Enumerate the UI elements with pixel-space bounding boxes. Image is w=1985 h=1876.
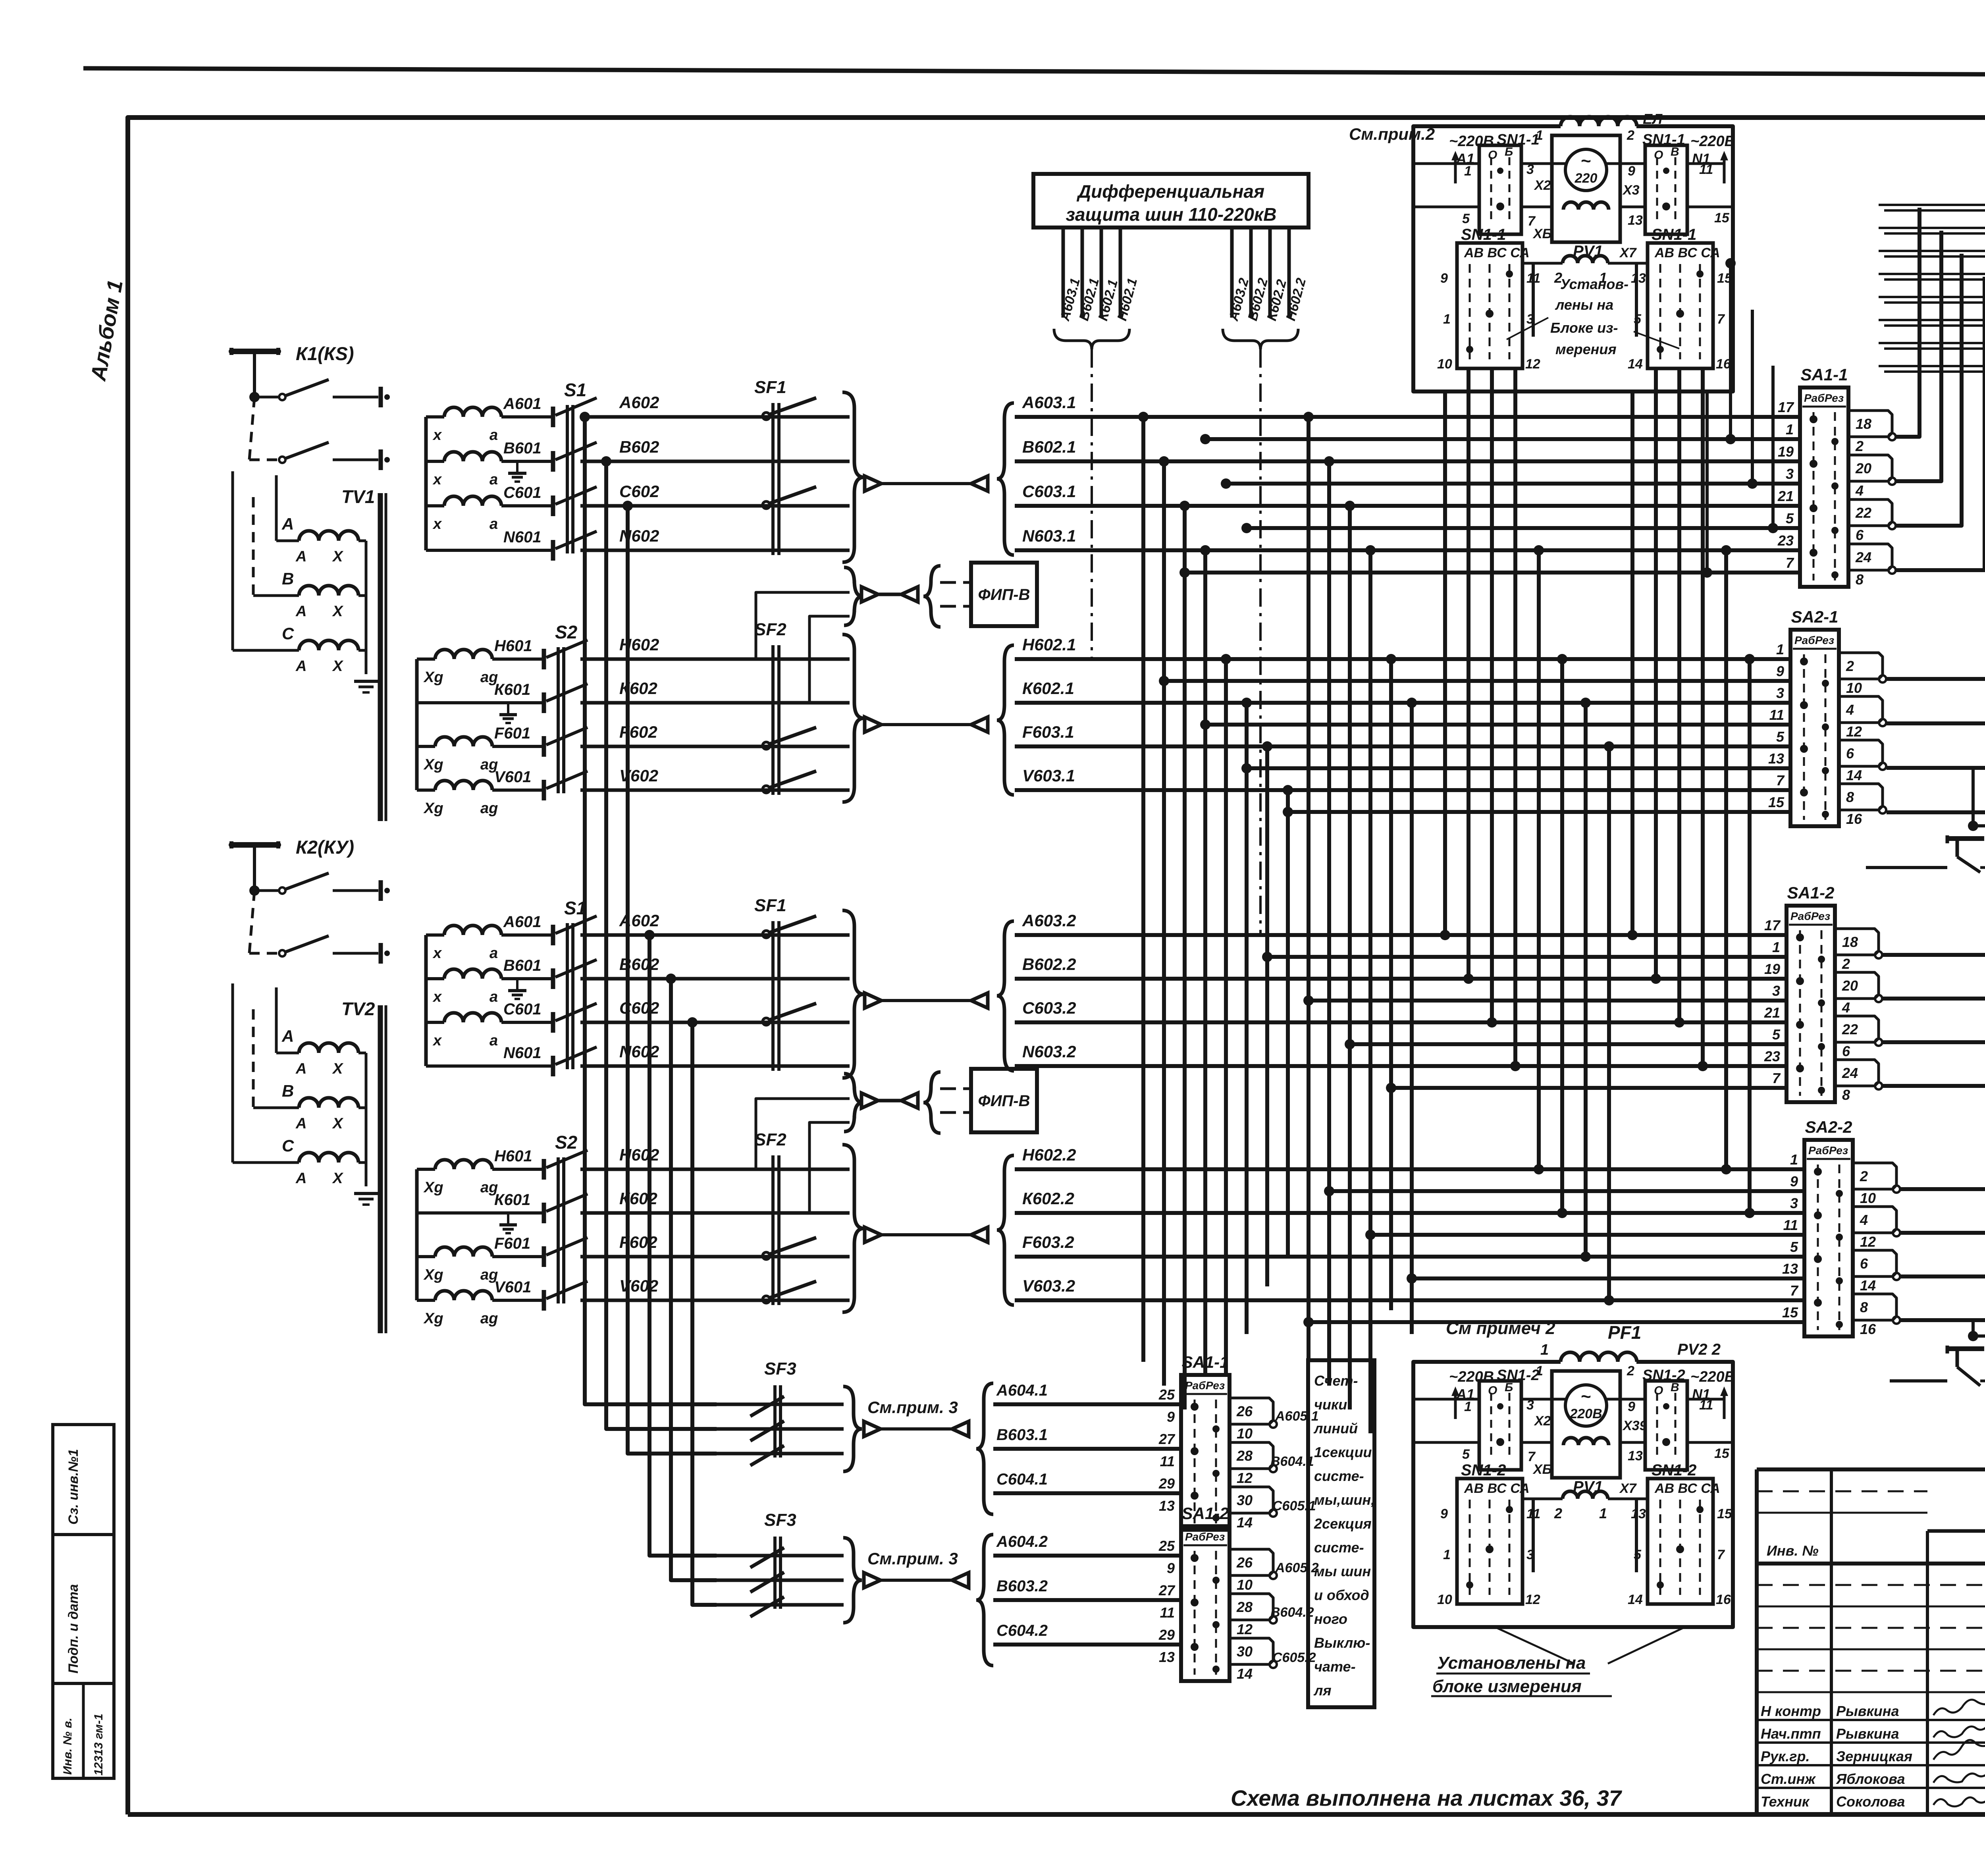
note text assembly 1 [1349,125,1679,357]
svg-text:N603.1: N603.1 [1022,526,1076,545]
svg-text:V602: V602 [619,766,658,785]
svg-text:ХБ: ХБ [1532,1462,1552,1477]
svg-text:14: 14 [1860,1277,1876,1294]
svg-text:V603.1: V603.1 [1022,766,1075,785]
svg-text:4: 4 [1855,482,1864,499]
svg-text:А: А [295,1115,306,1132]
svg-text:12: 12 [1237,1621,1253,1637]
svg-text:6: 6 [1860,1255,1868,1272]
svg-text:19: 19 [1778,443,1794,460]
svg-text:1: 1 [1540,1342,1549,1358]
mesh riser wires group B [1440,368,1755,1305]
svg-text:3: 3 [1526,1398,1534,1413]
svg-text:13: 13 [1628,1448,1643,1463]
measuring block assembly 2 outline and supply labels [1413,1322,1735,1627]
svg-text:N602: N602 [619,526,659,545]
svg-text:N603.2: N603.2 [1022,1042,1076,1061]
svg-text:Х: Х [332,548,344,565]
title block [1757,1469,1985,1814]
svg-text:Подп. и дата: Подп. и дата [66,1584,81,1674]
svg-text:а: а [490,989,498,1005]
bus group H602 system1 with breaker SF2 [580,620,1790,802]
svg-text:V603.2: V603.2 [1022,1276,1075,1295]
svg-text:23: 23 [1764,1048,1780,1064]
svg-text:1: 1 [1443,1547,1451,1562]
svg-text:2: 2 [1554,1505,1562,1521]
mesh riser wires group A [1138,412,1417,1433]
svg-text:F602: F602 [619,723,657,741]
svg-text:F602: F602 [619,1233,657,1251]
album label [86,278,127,384]
svg-text:8: 8 [1842,1087,1850,1103]
reactor PV1 (assembly 1) [1522,243,1648,286]
svg-text:2: 2 [1855,438,1864,454]
switch SN1-2 big left (assembly 2) [1437,1461,1540,1607]
SA2-2 left feeders [1303,1186,1804,1327]
svg-text:1: 1 [1786,421,1794,438]
left stamp box 1 (Св.инв.№) [53,1425,114,1535]
svg-text:Рез: Рез [1811,910,1830,922]
svg-text:22: 22 [1855,505,1871,521]
svg-text:Х: Х [332,603,344,620]
wire into SB1 lower [1890,1320,1973,1381]
svg-text:Раб.: Раб. [1794,634,1818,646]
svg-text:12: 12 [1525,357,1540,372]
svg-text:Раб.: Раб. [1808,1144,1832,1157]
svg-text:5: 5 [1790,1239,1798,1255]
winding block S2 (system 2) [417,1132,588,1327]
svg-text:S2: S2 [555,622,578,642]
svg-text:блоке измерения: блоке измерения [1432,1677,1582,1696]
svg-text:3: 3 [1776,685,1784,701]
svg-text:Соколова: Соколова [1836,1793,1905,1810]
svg-text:15: 15 [1714,1446,1730,1461]
svg-text:13: 13 [1631,1506,1646,1521]
svg-text:27: 27 [1158,1582,1176,1598]
svg-text:F601: F601 [494,725,530,742]
selector switch SA1-2 [1764,883,1882,1103]
svg-text:О: О [1488,148,1497,162]
svg-text:С601: С601 [503,1001,542,1018]
svg-text:16: 16 [1860,1321,1876,1337]
svg-text:Х: Х [332,658,344,675]
svg-text:5: 5 [1462,211,1470,226]
svg-text:13: 13 [1768,750,1784,767]
svg-text:30: 30 [1237,1643,1253,1660]
svg-text:С: С [282,1136,294,1155]
svg-text:х: х [432,1032,442,1049]
svg-text:1: 1 [1443,312,1451,327]
svg-text:SА1-2: SА1-2 [1181,1504,1229,1523]
svg-text:О: О [1654,1384,1663,1397]
counter output labels 2 [1270,1560,1319,1665]
svg-text:Х: Х [332,1115,344,1132]
svg-text:Х: Х [332,1060,344,1077]
svg-text:А: А [295,548,306,565]
transformer TV1 [233,471,386,821]
voltmeter PV2 (assembly 2) [1552,1371,1620,1478]
svg-text:АВ ВС СА: АВ ВС СА [1654,1481,1720,1496]
svg-text:ного: ного [1314,1611,1347,1627]
svg-text:Н602: Н602 [619,1145,659,1164]
svg-text:С602: С602 [619,999,659,1017]
svg-text:В: В [282,569,294,588]
svg-text:В602.1: В602.1 [1022,438,1076,456]
selector switch SA1-2 (counters) [1158,1504,1277,1682]
switch SN1-1 small right (assembly 1) [1645,145,1687,234]
svg-text:SF3: SF3 [764,1359,796,1379]
svg-text:7: 7 [1717,312,1725,327]
svg-text:С604.2: С604.2 [996,1622,1048,1639]
svg-text:А602: А602 [619,911,659,930]
selector switch SA1-1 (counters) [1158,1353,1277,1531]
svg-text:В601: В601 [503,440,542,457]
bus group H602 system2 with breaker SF2 [580,1130,1804,1312]
svg-text:Б: Б [1505,145,1513,158]
svg-text:13: 13 [1628,213,1643,228]
svg-text:В: В [1671,145,1679,158]
svg-text:К601: К601 [494,681,530,698]
push button SB1 (lower) [1947,1344,1985,1386]
svg-text:Рез: Рез [1815,634,1834,646]
svg-text:12: 12 [1860,1234,1876,1250]
svg-text:29: 29 [1158,1627,1175,1643]
svg-text:Н601: Н601 [494,1147,532,1165]
svg-text:Х39: Х39 [1622,1418,1647,1433]
svg-text:5: 5 [1776,729,1785,745]
svg-text:С602: С602 [619,482,659,501]
svg-text:В602: В602 [619,955,659,974]
svg-text:12: 12 [1525,1592,1540,1607]
SA2-1 left feeders [1159,676,1790,817]
counter output labels 1 [1270,1409,1319,1514]
svg-text:V602: V602 [619,1276,658,1295]
svg-text:мы,шин,: мы,шин, [1314,1492,1375,1508]
svg-text:ЕЛ: ЕЛ [1643,111,1663,127]
left stamp box 2 (Подп. и дата) [53,1535,114,1683]
switch SN1-2 small right (assembly 2) [1645,1381,1687,1470]
svg-text:Б: Б [1505,1381,1513,1394]
svg-text:К602: К602 [619,679,657,698]
svg-text:2: 2 [1860,1168,1868,1184]
wire C604.2 [993,1643,1181,1647]
svg-text:4: 4 [1846,702,1854,718]
switch SN1-1 big right (assembly 1) [1628,226,1733,372]
svg-text:Инв. №: Инв. № [1767,1542,1819,1559]
bus group A602 system1 with breaker SF1 [580,378,1800,562]
svg-text:F601: F601 [494,1235,530,1252]
svg-text:7: 7 [1790,1282,1799,1299]
svg-text:9: 9 [1790,1173,1798,1190]
svg-text:7: 7 [1776,772,1785,789]
svg-text:SF2: SF2 [754,1130,786,1149]
breaker group SF3 (system 1) [717,1359,1048,1514]
wire into SB1 upper [1866,768,1973,868]
svg-text:15: 15 [1782,1304,1798,1321]
svg-text:N601: N601 [503,528,542,546]
svg-text:9: 9 [1628,1399,1635,1414]
svg-text:5: 5 [1634,1547,1642,1562]
svg-text:5: 5 [1462,1447,1470,1462]
svg-text:N601: N601 [503,1044,542,1062]
svg-text:9: 9 [1628,164,1635,179]
feeder risers to SF3 [580,412,717,1605]
wires EV2 comb droppers [1883,760,1985,1320]
svg-text:2: 2 [1842,956,1850,972]
svg-text:3: 3 [1772,983,1780,999]
svg-text:Хg: Хg [423,1310,443,1327]
differential protection box [1033,174,1309,228]
svg-text:10: 10 [1846,680,1862,696]
svg-text:К1(КS): К1(КS) [296,343,354,364]
svg-text:10: 10 [1437,357,1452,372]
svg-text:А: А [281,515,294,533]
svg-text:10: 10 [1237,1425,1253,1442]
winding block S1 (system 1) [426,380,597,561]
svg-text:11: 11 [1526,271,1540,286]
svg-text:лены на: лены на [1555,297,1613,313]
svg-text:16: 16 [1846,811,1862,827]
svg-text:А604.2: А604.2 [996,1533,1048,1550]
svg-text:РV2 2: РV2 2 [1677,1341,1721,1358]
winding block S1 (system 2) [426,898,597,1076]
svg-text:А605.2: А605.2 [1275,1560,1319,1575]
pin numbers assembly 2 [1462,1398,1730,1496]
svg-text:5: 5 [1634,312,1642,327]
svg-text:Рез: Рез [1829,1144,1848,1157]
svg-text:Н601: Н601 [494,637,532,655]
svg-text:24: 24 [1855,549,1871,565]
svg-text:5: 5 [1786,510,1794,526]
svg-text:а: а [490,516,498,532]
svg-text:28: 28 [1236,1448,1253,1464]
svg-text:а: а [490,427,498,443]
svg-text:9: 9 [1167,1560,1175,1576]
svg-text:2: 2 [1627,128,1634,143]
svg-text:10: 10 [1237,1577,1253,1593]
svg-text:и обход: и обход [1314,1587,1369,1603]
svg-text:SА2-2: SА2-2 [1805,1118,1852,1136]
svg-text:АВ ВС СА: АВ ВС СА [1654,245,1720,260]
wire B603.2 [993,1598,1181,1602]
svg-text:А: А [295,1060,306,1077]
svg-text:Хg: Хg [423,800,443,817]
svg-text:К2(КУ): К2(КУ) [296,837,354,858]
svg-text:11: 11 [1699,162,1713,177]
svg-text:S1: S1 [564,380,586,400]
svg-text:3: 3 [1786,466,1794,482]
measuring block assembly 1 outline and supply labels [1413,111,1735,391]
bus group A602 system2 with breaker SF1 [580,896,1786,1078]
svg-text:ХБ: ХБ [1532,226,1552,241]
FIP-V box 2 [756,1069,1037,1213]
wire B603.1 [993,1447,1181,1451]
svg-text:Зерницкая: Зерницкая [1836,1748,1912,1764]
svg-text:Схема выполнена на листах 3: Схема выполнена на листах 36, 37 [1231,1785,1623,1810]
svg-text:20: 20 [1842,978,1858,994]
svg-text:А: А [295,603,306,620]
svg-text:ТV2: ТV2 [341,999,375,1019]
svg-text:а: а [490,1032,498,1049]
svg-text:Техник: Техник [1761,1793,1810,1810]
svg-text:К601: К601 [494,1191,530,1209]
svg-text:F603.2: F603.2 [1022,1233,1074,1251]
svg-text:12313 гм-1: 12313 гм-1 [92,1714,105,1776]
note text assembly 2 [1431,1319,1683,1696]
svg-text:С603.1: С603.1 [1022,482,1076,501]
svg-text:SА2-1: SА2-1 [1791,607,1838,626]
svg-text:12: 12 [1846,723,1862,740]
svg-text:С603.2: С603.2 [1022,999,1076,1017]
svg-text:7: 7 [1717,1547,1725,1562]
svg-text:Раб.: Раб. [1185,1379,1208,1392]
svg-text:систе-: систе- [1314,1468,1364,1484]
svg-text:АВ ВС СА: АВ ВС СА [1464,1481,1530,1496]
svg-text:13: 13 [1782,1261,1798,1277]
svg-text:1: 1 [1464,1399,1472,1414]
svg-text:17: 17 [1778,399,1794,415]
svg-text:Хg: Хg [423,1179,443,1196]
wires EV1 comb droppers [1887,208,1985,812]
svg-text:ТV1: ТV1 [341,486,375,507]
svg-text:Дифференциальная: Дифференциальная [1076,181,1264,202]
svg-text:SN1-2: SN1-2 [1652,1461,1696,1479]
svg-text:Рез: Рез [1825,392,1844,404]
svg-text:Блоке из-: Блоке из- [1550,320,1618,336]
svg-text:А: А [281,1027,294,1045]
svg-text:Х2: Х2 [1534,178,1551,193]
svg-text:В: В [282,1082,294,1100]
switch SN1-2 small left (assembly 2) [1479,1381,1521,1470]
svg-text:2: 2 [1846,658,1854,674]
pin numbers assembly 1 [1462,162,1730,260]
svg-text:а: а [490,471,498,488]
svg-text:18: 18 [1842,934,1858,950]
svg-text:С: С [282,624,294,643]
svg-text:См.прим. 3: См.прим. 3 [867,1549,958,1568]
svg-text:29: 29 [1158,1475,1175,1492]
svg-text:11: 11 [1699,1398,1713,1413]
svg-text:А: А [295,658,306,675]
svg-text:~220В: ~220В [1690,133,1735,150]
switch SN1-1 big left (assembly 1) [1437,226,1540,372]
wires inside assembly 1 [1413,164,1733,337]
svg-text:SF1: SF1 [754,896,786,915]
bottom note [1231,1785,1623,1810]
svg-text:6: 6 [1846,745,1854,762]
svg-text:В603.1: В603.1 [996,1426,1048,1444]
svg-text:21: 21 [1764,1005,1780,1021]
svg-text:~220В: ~220В [1690,1369,1735,1385]
svg-text:К602.1: К602.1 [1022,679,1074,698]
svg-text:4: 4 [1842,999,1850,1016]
svg-text:О: О [1654,148,1663,162]
svg-text:аg: аg [480,1310,498,1327]
svg-text:S2: S2 [555,1132,578,1153]
diff protection leads group 1 [1054,228,1140,659]
svg-text:7: 7 [1772,1070,1781,1086]
svg-text:АВ ВС СА: АВ ВС СА [1464,245,1530,260]
svg-text:К602: К602 [619,1189,657,1208]
svg-text:23: 23 [1777,532,1794,549]
svg-text:SN1-2: SN1-2 [1461,1461,1506,1479]
assembly pin riser wires [1179,258,1800,578]
svg-text:К602.2: К602.2 [1022,1189,1074,1208]
svg-text:3: 3 [1526,162,1534,177]
svg-text:11: 11 [1783,1217,1798,1233]
winding block S2 (system 1) [417,622,588,817]
svg-text:2секция: 2секция [1314,1515,1372,1532]
FIP-V box 1 [756,563,1037,703]
svg-text:х: х [432,471,442,488]
disconnector K1(KS) [231,343,390,470]
svg-text:N602: N602 [619,1042,659,1061]
svg-text:13: 13 [1159,1649,1175,1665]
svg-text:220В: 220В [1569,1406,1602,1421]
svg-text:Х3: Х3 [1622,183,1640,198]
svg-text:9: 9 [1776,663,1784,679]
svg-text:14: 14 [1237,1514,1253,1531]
svg-text:аg: аg [480,800,498,817]
svg-text:Выклю-: Выклю- [1314,1635,1370,1651]
svg-text:14: 14 [1628,357,1643,372]
svg-text:5: 5 [1772,1026,1781,1043]
svg-text:А: А [295,1170,306,1187]
wire A604.2 [993,1554,1181,1558]
svg-text:Н602: Н602 [619,635,659,654]
svg-text:Х7: Х7 [1619,245,1637,260]
selector switch SA2-2 [1782,1118,1900,1337]
svg-text:~220В: ~220В [1449,133,1494,150]
svg-text:V601: V601 [494,768,531,786]
svg-text:А603.2: А603.2 [1022,911,1076,930]
bus comb EV1 [1879,187,1985,377]
svg-text:27: 27 [1158,1431,1176,1447]
svg-text:9: 9 [1167,1409,1175,1425]
svg-text:22: 22 [1842,1021,1858,1037]
sheet top edge line [83,68,1985,76]
svg-text:А605.1: А605.1 [1275,1409,1319,1424]
svg-text:ля: ля [1313,1682,1332,1699]
svg-text:24: 24 [1842,1065,1858,1081]
svg-text:18: 18 [1856,416,1871,432]
svg-text:В602: В602 [619,438,659,456]
svg-text:28: 28 [1236,1599,1253,1615]
svg-text:8: 8 [1846,789,1854,805]
svg-text:25: 25 [1158,1386,1175,1403]
wire loop upper [1968,821,1985,868]
svg-text:14: 14 [1237,1666,1253,1682]
svg-text:6: 6 [1856,527,1864,543]
diff protection leads group 2 [1223,228,1309,935]
transformer TV2 [233,983,386,1333]
svg-text:14: 14 [1628,1592,1643,1607]
svg-text:В: В [1671,1381,1679,1394]
svg-text:ФИП-В: ФИП-В [978,1092,1030,1110]
breaker group SF3 (system 2) [717,1510,1048,1666]
svg-text:Н602.2: Н602.2 [1022,1145,1076,1164]
svg-text:4: 4 [1860,1212,1868,1228]
svg-text:15: 15 [1714,210,1730,226]
svg-text:3: 3 [1790,1195,1798,1211]
svg-text:1: 1 [1599,1505,1607,1521]
svg-text:С604.1: С604.1 [996,1471,1048,1488]
svg-text:чики: чики [1314,1396,1347,1413]
svg-text:F603.1: F603.1 [1022,723,1074,741]
svg-text:11: 11 [1160,1604,1175,1621]
svg-text:РF1: РF1 [1608,1322,1641,1343]
svg-text:3: 3 [1526,1547,1534,1562]
